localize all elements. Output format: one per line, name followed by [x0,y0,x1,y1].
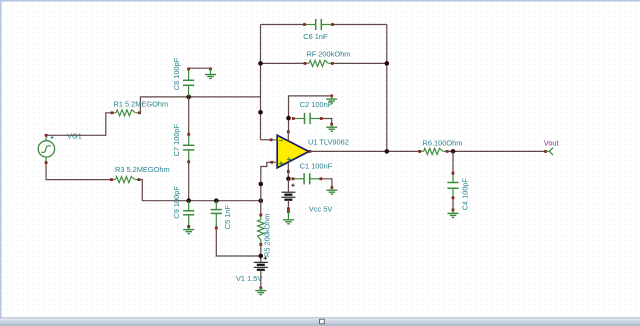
label C2 value [300,100,333,109]
node plus column joint [259,182,264,187]
label V1 value [236,274,262,283]
resistor R5 [258,214,264,246]
source VG1 [38,134,54,164]
ground C2 lower [326,123,337,131]
resistor R1 [111,110,141,116]
node left vertical joint [258,110,263,115]
node C5 top junction [214,198,219,203]
capacitor C2 [292,113,323,124]
wire C5 bottom corner [216,229,260,256]
svg-text:V1 1.5V: V1 1.5V [236,274,262,283]
wire VG1 bottom to R3 [46,164,111,180]
node RF right junction [385,61,390,66]
capacitor C6 [303,19,334,30]
label U1 value [308,137,349,146]
svg-text:Vcc 5V: Vcc 5V [309,204,332,213]
label Vcc value [309,204,332,213]
node C4 junction [451,149,456,154]
wire middle row C9 to C5 [189,200,217,202]
wire top C6 row left segment [261,24,304,26]
ground V1 [255,287,266,295]
wire R5 bottom to V1 [260,244,262,262]
svg-text:R5 200kOhm: R5 200kOhm [263,213,272,257]
node C1 Vcc junction [286,177,291,182]
wire V1 to ground [260,270,262,288]
source V1 [254,257,268,270]
wire middle row C5 to plus-node [216,200,260,202]
svg-text:C9 100pF: C9 100pF [172,186,181,219]
terminal Vout clip [544,148,553,155]
node feedback output junction [385,149,390,154]
window top border [0,0,640,2]
wire C4 bottom to ground [452,198,454,210]
wire R3 right corner down [139,180,189,201]
wire C8 top to ground [189,67,211,69]
wire C8 junction down to C7 [188,97,190,134]
bottom scrollbar [0,318,640,326]
wire RF row left segment [261,62,305,64]
op-amp U1 [270,130,312,173]
wire op-amp plus input jog [261,162,271,214]
label C4 value [461,177,470,210]
svg-text:C1 100nF: C1 100nF [300,161,333,170]
wire Vcc battery to ground [287,200,290,210]
label Vout [544,139,559,148]
ground C2 upper [326,95,337,104]
wire C7 bottom to row [188,162,190,201]
wire feedback left vertical [260,25,262,140]
capacitor C9 [183,201,194,228]
svg-text:C8 100pF: C8 100pF [172,57,181,90]
ground Vcc [283,210,294,224]
label C6 value [303,32,328,41]
wire Vcc junction to battery [287,179,289,192]
wire feedback right vertical [386,25,388,152]
capacitor C7 [183,133,194,163]
wire C4 top lead [452,151,454,173]
label C5 value [223,204,232,229]
label R5 value [263,213,272,257]
label R6 value [423,139,463,148]
label RF value [306,50,350,59]
svg-text:C7 100pF: C7 100pF [172,123,181,156]
node R5 V1 junction [259,254,264,259]
capacitor C5 [211,201,222,230]
wire op-amp top pin up [288,118,290,132]
ground C8 [205,68,216,79]
node C9 top junction [186,198,191,203]
wire C8 row to left vertical [189,96,261,98]
svg-text:R3 5.2MEGOhm: R3 5.2MEGOhm [115,165,170,174]
label C8 value [172,57,181,90]
wire top pin to upper ground [289,96,332,118]
resistor RF [304,60,334,66]
resistor R3 [110,177,140,183]
wire minus input [261,139,272,141]
capacitor C8 [183,68,194,97]
wire VG1 top to R1 [47,113,111,136]
label C1 value [300,161,333,170]
ground C1 [326,186,337,194]
wire op-amp bottom pin down [287,172,289,179]
source Vcc battery [281,184,295,200]
wire top C6 row right segment [334,24,387,26]
svg-text:C6 1nF: C6 1nF [303,32,328,41]
wire C2 right corner [321,119,331,125]
ground C4 [448,209,459,218]
window left border [0,0,2,319]
svg-text:C5 1nF: C5 1nF [223,204,232,229]
svg-text:C4 100pF: C4 100pF [461,177,470,210]
node RF left junction [258,61,263,66]
resistor R6 [418,148,448,154]
node C8 bottom junction [186,95,191,100]
ground C9 [183,225,194,233]
node plus column row junction [259,198,264,203]
label C7 value [172,123,181,156]
wire op-amp output [310,150,421,152]
node C2 left junction [286,116,291,121]
wire R1 right riser [139,97,188,113]
svg-text:RF 200kOhm: RF 200kOhm [306,50,350,59]
capacitor C4 [447,172,458,199]
capacitor C1 [292,173,323,184]
svg-text:C2 100nF: C2 100nF [300,100,333,109]
bottom resize handle [320,319,325,324]
wire RF row right segment [333,62,387,64]
label R1 value [114,99,169,108]
svg-text:R6 100Ohm: R6 100Ohm [423,139,463,148]
label VG1 [67,132,82,141]
label C9 value [172,186,181,219]
svg-text:U1 TLV9062: U1 TLV9062 [308,137,349,146]
svg-text:VG1: VG1 [67,132,82,141]
label R3 value [115,165,170,174]
wire R6 to Vout [445,150,545,152]
svg-text:Vout: Vout [544,139,559,148]
wire C1 right corner [321,179,332,188]
